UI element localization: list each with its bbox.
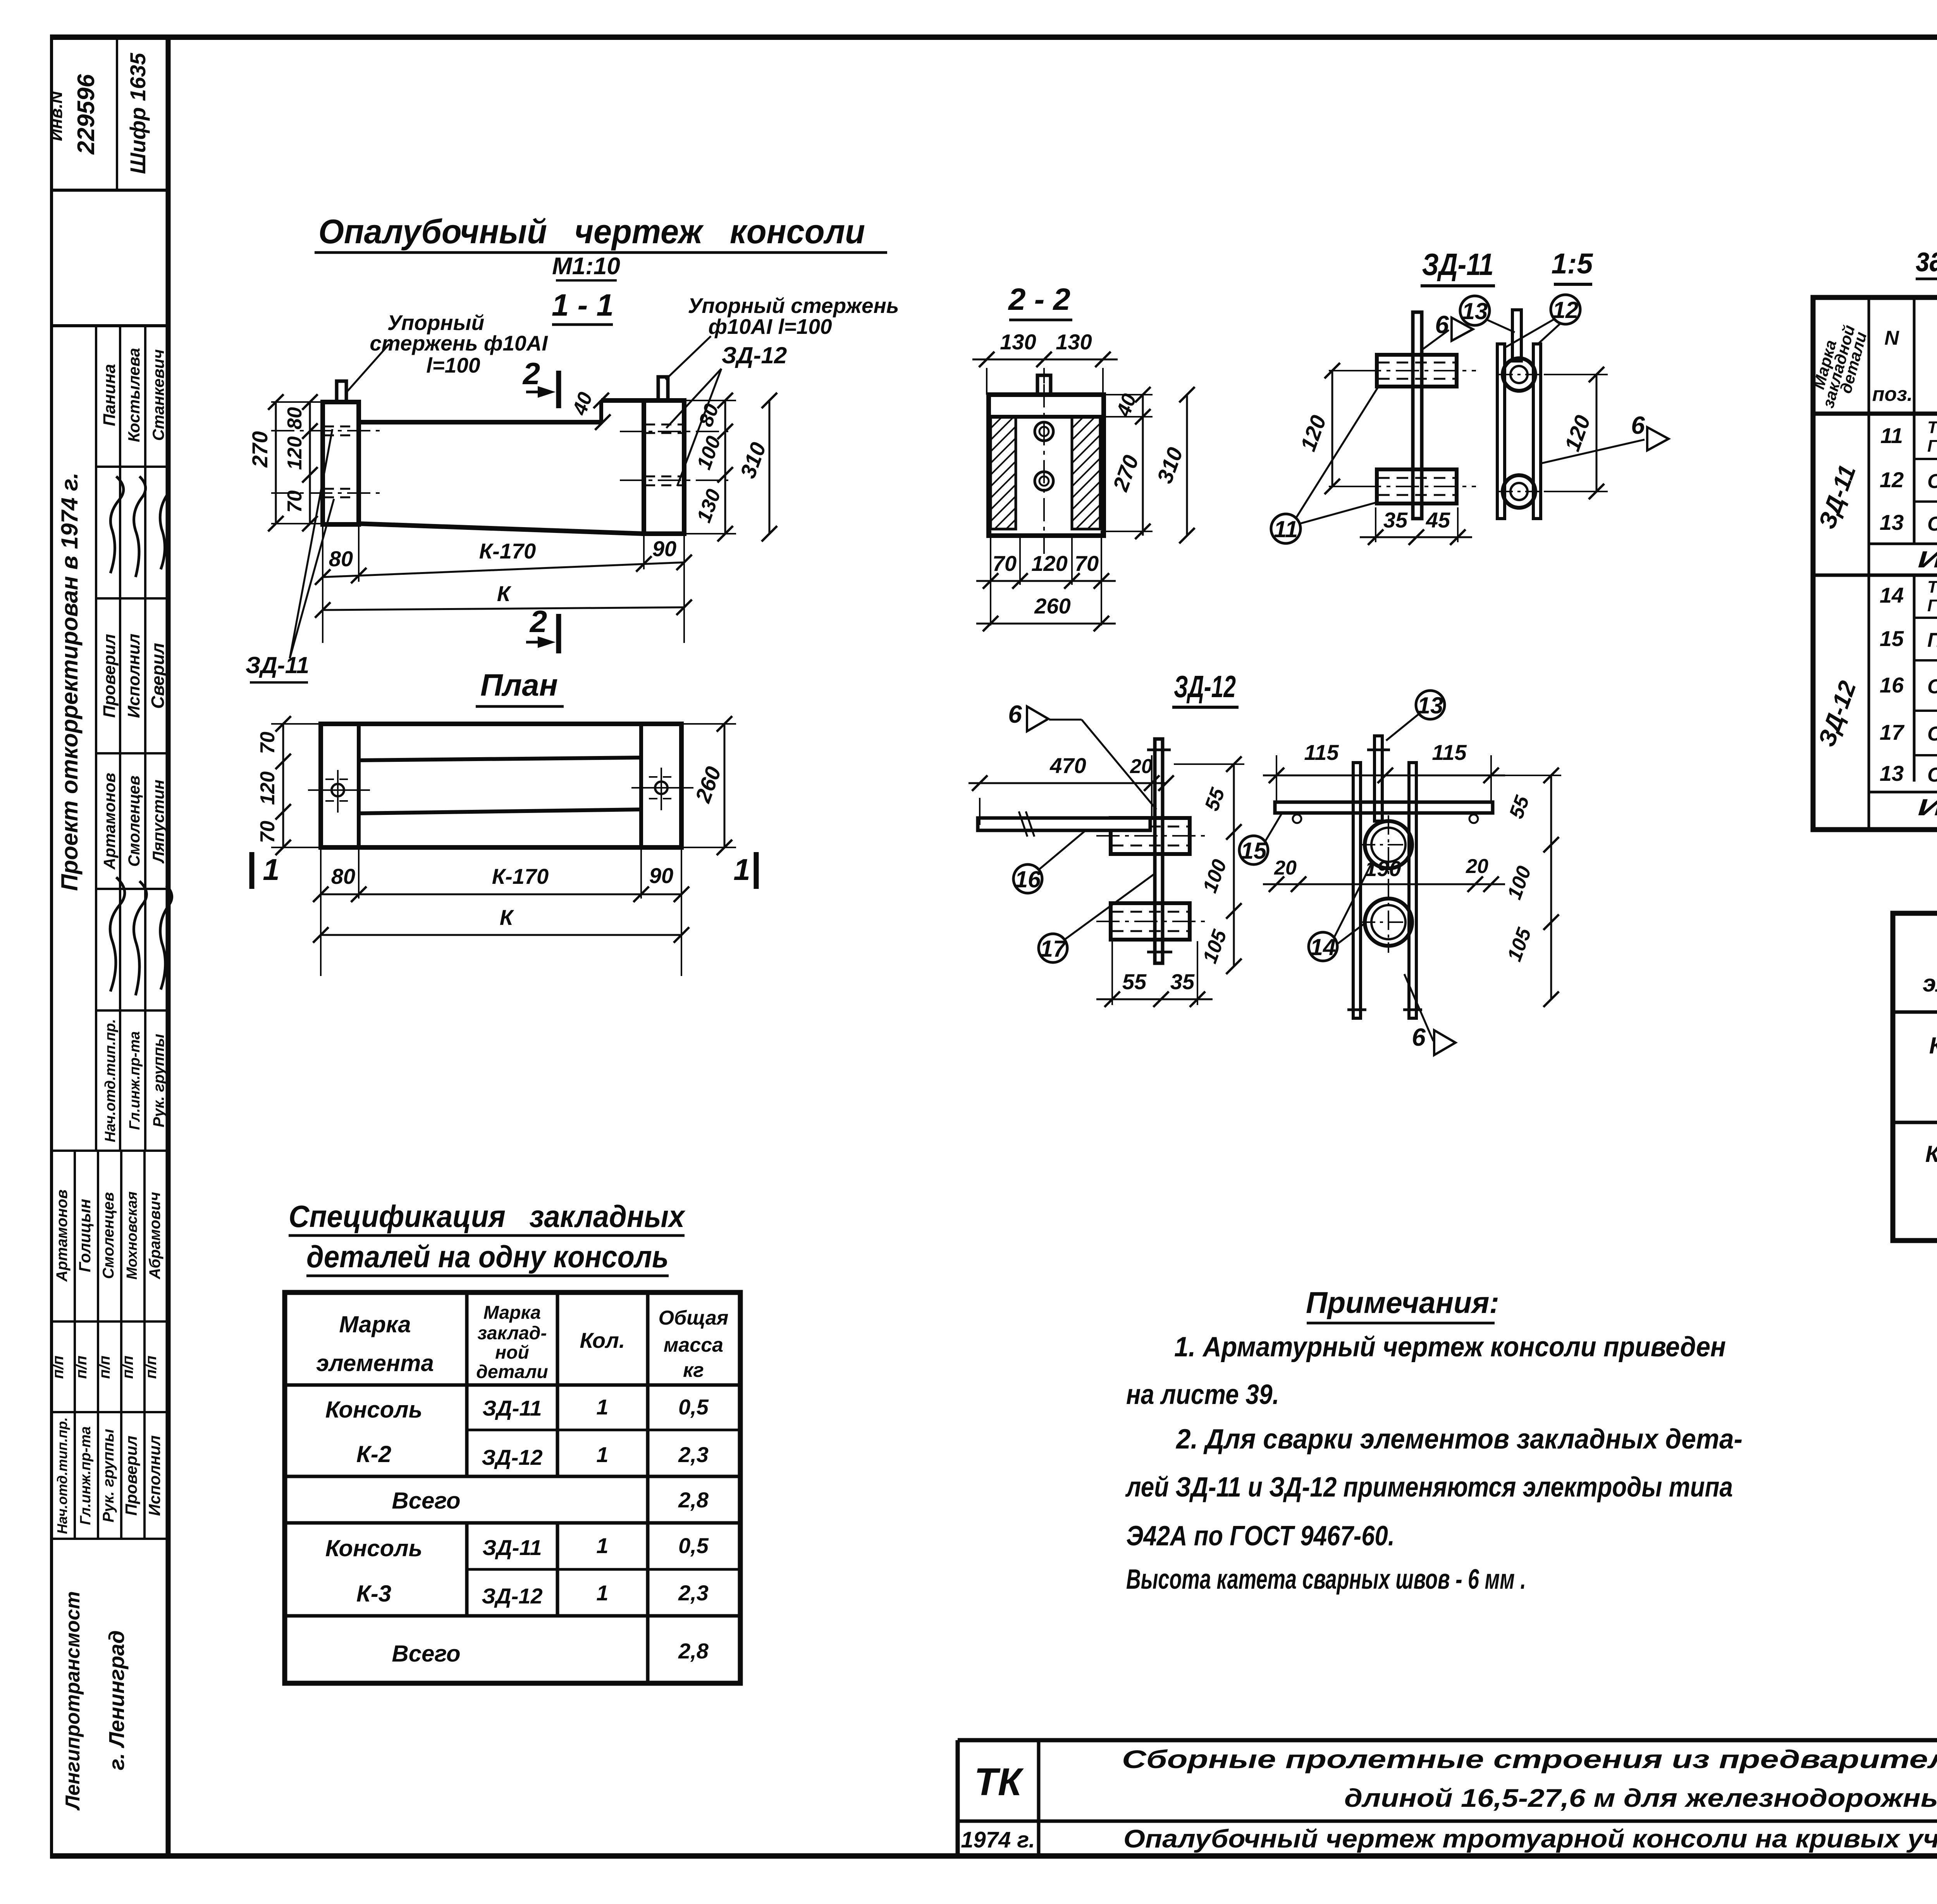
- svg-text:Примечания:: Примечания:: [1306, 1285, 1499, 1320]
- svg-text:229596: 229596: [73, 74, 100, 155]
- svg-text:Кол.: Кол.: [580, 1328, 625, 1352]
- svg-text:l=100: l=100: [426, 353, 480, 377]
- spec embedded table grid: [285, 1292, 740, 1683]
- svg-text:80: 80: [284, 407, 306, 430]
- stamp box Inv.N / Shifr: [52, 189, 168, 192]
- svg-text:Смоленцев: Смоленцев: [100, 1192, 117, 1279]
- svg-text:1:5: 1:5: [1552, 247, 1594, 280]
- ZD-11 side: left plate pos.12: [1497, 344, 1505, 519]
- svg-text:120: 120: [256, 772, 279, 805]
- sheet frame bottom border: [50, 1853, 1937, 1859]
- svg-text:Нач.отд.тип.пр.: Нач.отд.тип.пр.: [54, 1417, 70, 1534]
- svg-text:стержень ф10АI: стержень ф10АI: [370, 331, 548, 355]
- ZD-11 side: right plate pos.12: [1533, 344, 1541, 519]
- svg-text:2. Для сварки элементов зак: 2. Для сварки элементов закладных дета-: [1175, 1424, 1743, 1455]
- console left stud: [337, 381, 346, 402]
- svg-text:ЗД-12: ЗД-12: [482, 1445, 542, 1469]
- stamp empty box: [52, 324, 168, 327]
- svg-text:п/п: п/п: [50, 1356, 67, 1379]
- svg-text:Проект откорректирован в 197: Проект откорректирован в 1974 г.: [57, 473, 83, 891]
- embedded part dashes left block: [324, 426, 358, 428]
- svg-text:115: 115: [1432, 740, 1467, 765]
- svg-text:20: 20: [1274, 857, 1297, 879]
- svg-text:п/п: п/п: [119, 1356, 136, 1379]
- ZD-12 weld hooks under plate: [1293, 815, 1301, 823]
- svg-text:Исполнил: Исполнил: [124, 634, 143, 718]
- svg-text:2,8: 2,8: [678, 1488, 709, 1512]
- 2-2 right dim 40/270: [1105, 394, 1153, 395]
- position bubble 13: [1460, 296, 1490, 325]
- plan hole symbol right: [655, 782, 667, 794]
- svg-text:70: 70: [256, 821, 279, 843]
- svg-text:120: 120: [284, 436, 306, 470]
- 2-2 stud: [1037, 375, 1051, 395]
- plan right block edge: [639, 724, 643, 847]
- plan left block edge: [357, 724, 361, 847]
- svg-text:115: 115: [1304, 740, 1339, 765]
- svg-text:1: 1: [596, 1395, 608, 1419]
- svg-text:N: N: [1884, 327, 1899, 349]
- stamp five-column section: [52, 1150, 168, 1152]
- left dim 270: [275, 402, 277, 524]
- stamp signatures group 2: [110, 877, 125, 992]
- position bubble 15: [1239, 836, 1268, 864]
- svg-text:Голицын: Голицын: [76, 1199, 94, 1272]
- ZD-12 left: upper tube pos.14: [1111, 818, 1190, 854]
- svg-text:6: 6: [1008, 700, 1022, 728]
- right dim 310: [769, 400, 771, 534]
- svg-text:Высота катета сварных швов: Высота катета сварных швов - 6 мм .: [1126, 1564, 1526, 1595]
- svg-text:Стержень ф8АI: Стержень ф8АI: [1927, 470, 1937, 493]
- plan right dim 260: [724, 724, 726, 847]
- svg-text:Исполнил: Исполнил: [145, 1435, 163, 1516]
- sheet frame top border: [50, 34, 1937, 40]
- svg-text:Артамонов: Артамонов: [100, 773, 119, 870]
- console right stud: [658, 377, 668, 400]
- svg-text:ф10АI l=100: ф10АI l=100: [708, 314, 832, 339]
- pokazateli table grid: [1893, 913, 1937, 1241]
- svg-text:17: 17: [1040, 936, 1067, 962]
- svg-text:Опалубочный чертеж консоли: Опалубочный чертеж консоли: [318, 212, 865, 251]
- svg-text:на листе 39.: на листе 39.: [1126, 1379, 1279, 1410]
- ZD-12 left dim chain 55/100/105: [1233, 764, 1235, 966]
- svg-text:16: 16: [1015, 866, 1041, 892]
- svg-text:2 - 2: 2 - 2: [1008, 282, 1070, 316]
- svg-text:11: 11: [1880, 423, 1903, 448]
- plan section mark 1 left: [249, 852, 255, 889]
- svg-text:15: 15: [1241, 838, 1267, 864]
- svg-text:0,5: 0,5: [678, 1533, 709, 1558]
- 2-2 hatched leg right: [1072, 417, 1100, 529]
- svg-text:Сверил: Сверил: [148, 643, 168, 709]
- svg-text:К: К: [500, 905, 514, 930]
- svg-text:К-170: К-170: [492, 864, 549, 888]
- svg-text:Сборные пролетные строения: Сборные пролетные строения из предварите…: [1122, 1745, 1937, 1773]
- plan bottom dims 80/K-170/90: [320, 848, 322, 976]
- svg-text:п/п: п/п: [96, 1356, 113, 1379]
- svg-text:п/п: п/п: [73, 1356, 90, 1379]
- svg-text:Итого на закладную деталь: Итого на закладную деталь: [1918, 546, 1937, 572]
- svg-text:План: План: [480, 668, 558, 702]
- svg-text:0,5: 0,5: [678, 1395, 709, 1419]
- plan outline: [321, 724, 681, 847]
- svg-text:1. Арматурный чертеж консоли: 1. Арматурный чертеж консоли приведен: [1174, 1332, 1726, 1363]
- svg-text:2,3: 2,3: [678, 1442, 709, 1467]
- svg-text:элемента: элемента: [316, 1350, 434, 1376]
- svg-text:14: 14: [1880, 583, 1904, 607]
- position bubble 12: [1551, 295, 1580, 324]
- svg-text:Мохновская: Мохновская: [124, 1191, 140, 1280]
- svg-text:20: 20: [1466, 855, 1488, 878]
- svg-text:г. Ленинград: г. Ленинград: [104, 1630, 129, 1770]
- svg-text:заклад-: заклад-: [478, 1323, 547, 1344]
- stamp signature table: [95, 326, 97, 1151]
- svg-text:6: 6: [1412, 1023, 1426, 1051]
- position bubble 16: [1013, 864, 1042, 893]
- svg-text:130: 130: [1056, 330, 1092, 354]
- svg-text:70: 70: [284, 490, 306, 513]
- svg-text:Костылева: Костылева: [125, 348, 143, 442]
- svg-text:Панина: Панина: [100, 364, 119, 426]
- svg-text:масса: масса: [664, 1334, 723, 1356]
- ZD-12 right dim chain 55/100/105: [1550, 775, 1552, 999]
- ZD-12 dim 55/35 bottom: [1111, 941, 1113, 1005]
- svg-text:Упорный стержень: Упорный стержень: [688, 294, 899, 318]
- svg-text:ЗД-12: ЗД-12: [482, 1584, 542, 1608]
- svg-text:Смоленцев: Смоленцев: [125, 775, 143, 867]
- svg-text:детали: детали: [476, 1362, 548, 1382]
- console top step (40): [599, 400, 603, 422]
- svg-text:Марка: Марка: [483, 1303, 541, 1323]
- svg-text:длиной 16,5-27,6 м для желез: длиной 16,5-27,6 м для железнодорожных м…: [1344, 1784, 1937, 1812]
- svg-text:Абрамович: Абрамович: [146, 1192, 163, 1279]
- svg-text:Труба dₙ=28 δ=2,5: Труба dₙ=28 δ=2,5: [1927, 418, 1937, 437]
- svg-text:Нач.отд.тип.пр.: Нач.отд.тип.пр.: [102, 1019, 119, 1142]
- svg-text:13: 13: [1462, 298, 1488, 324]
- svg-text:лей ЗД-11 и ЗД-12 применяются: лей ЗД-11 и ЗД-12 применяются электроды …: [1125, 1472, 1733, 1503]
- plan left dim 70/120/70: [282, 724, 284, 847]
- svg-text:поз.: поз.: [1872, 383, 1913, 406]
- svg-text:деталей на одну консоль: деталей на одну консоль: [306, 1239, 669, 1274]
- ZD-12 right: tube circles pos.14: [1365, 821, 1412, 868]
- plan hole symbol left: [332, 784, 344, 796]
- svg-text:Общая: Общая: [659, 1307, 729, 1329]
- svg-text:Итого на закладную деталь: Итого на закладную деталь: [1918, 794, 1937, 820]
- svg-text:35: 35: [1170, 969, 1195, 994]
- svg-text:кг: кг: [683, 1359, 704, 1382]
- svg-text:16: 16: [1880, 673, 1904, 697]
- ZD-12 dim 470: [979, 798, 981, 825]
- svg-text:Марка: Марка: [339, 1311, 411, 1337]
- ZD-11 dim 120 right: [1596, 375, 1598, 491]
- svg-text:Труба dₙ=38 δ=3,5: Труба dₙ=38 δ=3,5: [1927, 577, 1937, 596]
- svg-text:ЗД-12: ЗД-12: [722, 342, 787, 368]
- svg-text:Рук. группы: Рук. группы: [100, 1429, 117, 1522]
- svg-text:1: 1: [596, 1581, 608, 1605]
- svg-text:55: 55: [1122, 969, 1147, 994]
- ZD-12 right: side rods pos.16: [1353, 763, 1361, 1018]
- svg-text:90: 90: [652, 536, 676, 561]
- svg-text:80: 80: [331, 864, 355, 888]
- svg-text:Опалубочный чертеж тротуарно: Опалубочный чертеж тротуарной консоли на…: [1123, 1824, 1937, 1853]
- 2-2 bolt circles: [1035, 422, 1053, 441]
- svg-text:20: 20: [1130, 755, 1153, 778]
- svg-text:Гл.инж.пр-та: Гл.инж.пр-та: [127, 1031, 143, 1130]
- svg-text:Артамонов: Артамонов: [53, 1189, 71, 1282]
- svg-text:470: 470: [1049, 753, 1086, 778]
- spec metal table grid: [1813, 297, 1937, 830]
- svg-text:1 - 1: 1 - 1: [552, 288, 614, 322]
- svg-text:17: 17: [1880, 720, 1905, 744]
- svg-text:70: 70: [993, 551, 1017, 576]
- ZD-12 right: plate pos.15: [1275, 802, 1493, 813]
- 2-2 top dim 130/130: [986, 368, 987, 395]
- 2-2 right dim 310: [1186, 395, 1188, 536]
- 2-2 bottom dim 70/120/70: [990, 531, 991, 626]
- 2-2 leg bottoms: [989, 528, 1016, 531]
- console right end block: [644, 400, 684, 534]
- svg-text:ГОСТ 8732-70: ГОСТ 8732-70: [1927, 596, 1937, 615]
- svg-text:Стержень ф10АI: Стержень ф10АI: [1927, 764, 1937, 786]
- 2-2 bottom dim 260: [976, 623, 1116, 625]
- svg-text:ЗД-11: ЗД-11: [482, 1396, 542, 1420]
- svg-text:70: 70: [256, 732, 279, 754]
- ZD-11 side: tube circles: [1503, 358, 1535, 391]
- console beam top edge: [359, 420, 601, 424]
- embedded part dashes right block: [645, 424, 683, 426]
- svg-text:Стержень ф12АII: Стержень ф12АII: [1927, 675, 1937, 698]
- bottom dim 80 / K-170 / 90: [322, 524, 323, 643]
- svg-text:Инв.N: Инв.N: [47, 91, 66, 141]
- svg-text:ной: ной: [495, 1342, 529, 1363]
- svg-text:15: 15: [1880, 626, 1904, 651]
- svg-text:12: 12: [1553, 297, 1579, 323]
- svg-text:1974 г.: 1974 г.: [961, 1827, 1035, 1852]
- ZD-11 front: bottom tube pos.11: [1377, 469, 1457, 503]
- svg-text:Консоль: Консоль: [325, 1397, 422, 1423]
- svg-text:М1:10: М1:10: [552, 253, 620, 280]
- svg-text:К-3: К-3: [356, 1581, 391, 1607]
- svg-text:Гл.инж.пр-та: Гл.инж.пр-та: [77, 1426, 94, 1525]
- console left end block: [323, 402, 359, 524]
- 2-2 flange bottom: [989, 415, 1104, 419]
- svg-text:Консоль: Консоль: [325, 1535, 422, 1561]
- svg-text:п/п: п/п: [143, 1356, 160, 1379]
- svg-text:Проверил: Проверил: [122, 1436, 140, 1516]
- position bubble 11: [1271, 514, 1301, 543]
- console beam bottom edge (sloped): [359, 524, 644, 534]
- ZD-12 left: rod pos.17: [1155, 739, 1163, 963]
- svg-text:2: 2: [522, 356, 540, 391]
- svg-text:ГОСТ 8732-70: ГОСТ 8732-70: [1927, 436, 1937, 455]
- ZD-11 front: center bar pos.13: [1413, 312, 1422, 519]
- svg-text:закладных деталей консоли: закладных деталей консоли: [1916, 240, 1937, 279]
- svg-text:260: 260: [1034, 594, 1070, 618]
- svg-text:Проверил: Проверил: [100, 634, 119, 718]
- svg-text:270: 270: [248, 431, 272, 467]
- svg-text:11: 11: [1274, 516, 1298, 542]
- svg-text:Э42А по ГОСТ 9467-60.: Э42А по ГОСТ 9467-60.: [1126, 1521, 1395, 1552]
- svg-text:Стержень ф8АI: Стержень ф8АI: [1927, 723, 1937, 745]
- svg-text:Консоль: Консоль: [1929, 1033, 1937, 1059]
- plan section mark 1 right: [754, 852, 759, 889]
- ZD-12 left: bar pos.16: [978, 818, 1150, 830]
- svg-text:ЗД-11: ЗД-11: [1422, 247, 1494, 282]
- svg-text:Всего: Всего: [392, 1641, 460, 1667]
- svg-text:35: 35: [1383, 508, 1408, 532]
- svg-text:Ляпустин: Ляпустин: [149, 780, 167, 864]
- 2-2 centerline: [1043, 384, 1045, 554]
- svg-text:2,3: 2,3: [678, 1581, 709, 1605]
- bottom dim K: [323, 607, 684, 610]
- svg-text:13: 13: [1880, 510, 1904, 534]
- svg-text:элемента: элемента: [1923, 970, 1937, 997]
- position bubble 17: [1039, 934, 1067, 962]
- svg-text:90: 90: [649, 863, 673, 888]
- 2-2 hatched leg left: [991, 417, 1016, 529]
- ZD-12 dim 20/190/20: [1263, 883, 1505, 885]
- stamp signatures group: [110, 476, 124, 573]
- svg-text:12: 12: [1880, 467, 1904, 492]
- svg-text:Ленгипротрансмост: Ленгипротрансмост: [62, 1591, 84, 1811]
- svg-text:1: 1: [263, 852, 279, 887]
- svg-text:190: 190: [1365, 856, 1401, 881]
- svg-text:13: 13: [1880, 761, 1904, 785]
- svg-text:120: 120: [1031, 551, 1067, 576]
- 2-2 outline: [989, 395, 1104, 536]
- svg-text:6: 6: [1631, 411, 1645, 439]
- plan beam edges: [359, 758, 641, 760]
- left dim chain 80/120/70: [309, 402, 311, 524]
- svg-text:Спецификация закладных: Спецификация закладных: [289, 1199, 686, 1234]
- svg-text:1: 1: [733, 852, 750, 887]
- stamp outer left edge: [50, 37, 53, 1856]
- svg-text:К-2: К-2: [356, 1441, 391, 1467]
- svg-text:Станкевич: Станкевич: [149, 349, 167, 441]
- svg-text:Консоль: Консоль: [1925, 1141, 1937, 1167]
- svg-text:ЗД-11: ЗД-11: [246, 652, 309, 678]
- svg-text:130: 130: [1000, 330, 1036, 354]
- svg-text:Рук. группы: Рук. группы: [150, 1034, 167, 1127]
- ZD-11 front: top tube pos.11: [1377, 355, 1457, 387]
- svg-text:ЗД-12: ЗД-12: [1174, 669, 1236, 704]
- svg-text:1: 1: [596, 1533, 608, 1558]
- ZD-11 side: center rod pos.13: [1512, 310, 1521, 361]
- ZD-11 dim 120 left: [1331, 371, 1333, 486]
- svg-text:13: 13: [1417, 693, 1443, 718]
- svg-text:ТК: ТК: [974, 1760, 1024, 1804]
- svg-text:К: К: [497, 581, 512, 606]
- ZD-12 left: lower tube pos.14: [1111, 903, 1190, 940]
- svg-text:К-170: К-170: [479, 539, 536, 563]
- svg-text:Стержень ф10АI: Стержень ф10АI: [1927, 513, 1937, 535]
- position bubble 13 (right): [1416, 691, 1445, 719]
- svg-text:Всего: Всего: [392, 1488, 460, 1514]
- svg-text:1: 1: [596, 1442, 608, 1467]
- svg-text:Шифр 1635: Шифр 1635: [126, 53, 150, 174]
- ZD-11 dim 35/45: [1375, 507, 1376, 542]
- position bubble 14: [1309, 932, 1337, 961]
- svg-text:14: 14: [1310, 934, 1336, 960]
- plan bottom dim K: [321, 934, 681, 936]
- svg-text:ЗД-11: ЗД-11: [482, 1535, 542, 1560]
- title block outline: [958, 1738, 1937, 1742]
- sheet frame inner left border: [166, 37, 171, 1856]
- svg-text:2,8: 2,8: [678, 1639, 709, 1663]
- ZD-12 right: center rod pos.13: [1374, 736, 1382, 821]
- svg-text:Планка ГОСТ 5681-57*: Планка ГОСТ 5681-57*: [1927, 629, 1937, 651]
- svg-text:80: 80: [329, 546, 353, 571]
- svg-text:45: 45: [1426, 508, 1450, 532]
- svg-text:70: 70: [1075, 551, 1099, 576]
- ZD-12 dim 115/115: [1276, 755, 1277, 804]
